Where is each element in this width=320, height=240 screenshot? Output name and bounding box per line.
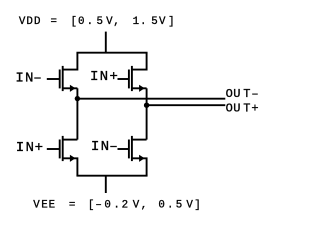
M1 channel bar	[62, 66, 64, 91]
transistor M3 (bottom-left, gate IN+)	[47, 136, 78, 176]
M1 drain leg to VDD rail	[63, 53, 78, 70]
M4 source leg to VEE rail	[132, 158, 147, 175]
M4 gate bar	[128, 140, 130, 159]
transistor M1 (top-left, gate IN-)	[47, 53, 78, 92]
junction dot node A	[75, 96, 80, 101]
M3 source leg to VEE rail	[63, 158, 78, 175]
M1 gate bar	[59, 70, 61, 89]
svg-text:IN–: IN–	[91, 139, 118, 155]
M3 gate bar	[59, 140, 61, 159]
wire VDD stem	[105, 32, 107, 53]
wire VDD top rail	[76, 52, 147, 54]
M4 source arrow	[139, 155, 145, 162]
junction dot node B	[144, 103, 149, 108]
M2 source leg	[132, 87, 147, 89]
wire VEE stem	[105, 176, 107, 193]
M1 source leg	[63, 87, 78, 89]
transistor M2 (top-right, gate IN+)	[118, 53, 147, 92]
M2 channel bar	[131, 66, 133, 91]
wire node A vertical (M1 source to M3 drain)	[76, 88, 78, 139]
M3 gate wire	[47, 148, 60, 150]
transistor M4 (bottom-right, gate IN-)	[118, 136, 147, 176]
svg-text:IN+: IN+	[90, 69, 118, 85]
M4 gate wire	[118, 148, 129, 150]
M1 gate wire	[47, 78, 60, 80]
svg-text:IN+: IN+	[16, 140, 43, 156]
M3 drain leg	[63, 139, 78, 141]
M2 gate bar	[128, 70, 130, 89]
M3 source arrow	[70, 155, 76, 162]
M3 channel bar	[62, 136, 64, 161]
wire OUT- from node A	[77, 98, 225, 100]
wire VEE bottom rail	[76, 175, 147, 177]
M2 drain leg to VDD rail	[132, 53, 147, 70]
wire OUT+ from node B	[147, 104, 226, 106]
svg-text:IN–: IN–	[15, 71, 41, 87]
M2 source arrow	[139, 85, 145, 92]
M4 channel bar	[131, 136, 133, 161]
wire node B vertical (M2 source to M4 drain)	[146, 88, 148, 139]
M2 gate wire	[118, 78, 129, 80]
M1 source arrow	[70, 85, 76, 92]
M4 drain leg	[132, 139, 147, 141]
